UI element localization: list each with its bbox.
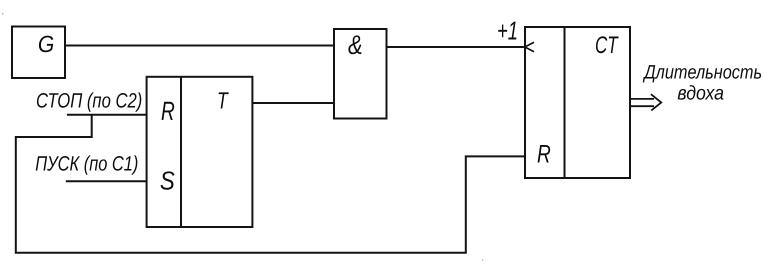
counter divider line [563,27,565,178]
svg-text:&: & [348,30,363,60]
svg-text:S: S [160,165,175,195]
svg-text:T: T [217,87,229,113]
wire G output to AND gate input [65,44,334,46]
flip-flop divider line [180,77,182,227]
svg-text:СТОП (по С2): СТОП (по С2) [36,90,142,113]
svg-text:R: R [161,96,175,126]
wire ПУСК to S input [66,180,147,182]
generator G box [12,26,65,78]
wire AND output to counter +1 input [387,46,525,48]
wire T output to AND gate input [252,102,334,104]
svg-text:вдоха: вдоха [677,82,724,104]
output double-arrow of counter [631,94,661,110]
dynamic input indicator at counter +1 [525,42,534,52]
svg-text:Длительность: Длительность [643,61,763,83]
flip-flop T box [147,77,253,227]
wire branch from СТОП down-left-down-bottom-up to counter R input [16,115,525,253]
svg-text:R: R [537,140,551,168]
svg-text:ПУСК (по С1): ПУСК (по С1) [35,152,138,175]
stray speck top-left [2,13,3,14]
stray speck bottom middle [482,259,483,260]
svg-text:CT: CT [595,32,619,59]
wire СТОП to R input [67,114,147,116]
and-gate box [334,29,387,119]
svg-text:G: G [38,31,54,57]
svg-text:+1: +1 [497,16,518,46]
counter CT box [525,27,630,178]
